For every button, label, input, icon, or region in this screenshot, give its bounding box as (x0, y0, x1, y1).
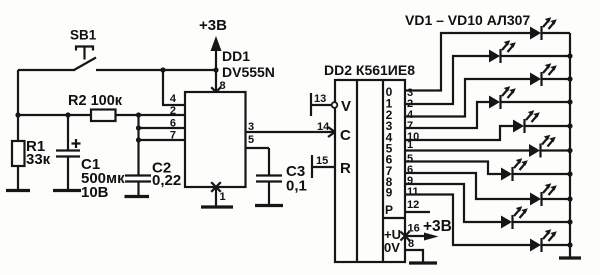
junction dot bus row VD2 (567, 53, 572, 58)
svg-text:16: 16 (408, 223, 420, 235)
LED VD6 (529, 135, 556, 158)
svg-text:4: 4 (170, 93, 177, 105)
resistor R1 body (17, 115, 19, 140)
svg-text:VD1 – VD10 АЛ307: VD1 – VD10 АЛ307 (405, 12, 530, 28)
switch SB1 actuator cap (76, 47, 93, 51)
wire: branch from top rail down to DD1 pin 4 (163, 70, 185, 105)
svg-text:0,1: 0,1 (286, 178, 307, 195)
ground bar under C2 (125, 195, 150, 198)
wire: top rail left segment to SB1 left contact (18, 69, 75, 71)
wire: DD1 pin 5 lead (246, 147, 270, 149)
wire: DD2 out 0 to VD1 riser (405, 33, 530, 91)
svg-text:11: 11 (407, 186, 419, 198)
wire: branch to DD1 pin 6 (139, 127, 186, 129)
svg-text:2: 2 (170, 105, 176, 117)
wire: DD1 pin 3 to DD2 C input (246, 131, 335, 133)
svg-text:6: 6 (170, 118, 176, 130)
pin 16 cross mark on DD2 right edge (401, 232, 410, 241)
wire: left vertical rail from top wire down to main bus (17, 70, 19, 115)
LED VD3 (530, 63, 557, 86)
wire: VD7 cathode to bus (513, 173, 570, 175)
junction dot at pin4 branch (160, 67, 165, 72)
svg-text:9: 9 (386, 186, 393, 200)
wire: VD5 cathode to bus (525, 125, 570, 127)
svg-text:33к: 33к (26, 151, 51, 168)
wire: DD2 pin 13 stub (311, 104, 332, 106)
wire: DD1 pin 1 to ground (215, 188, 217, 206)
wire: VD9 cathode to bus (513, 221, 570, 223)
power +3V arrow at DD2 pin 16 (405, 235, 424, 237)
wire: DD2 out 3 to VD4 riser (405, 102, 489, 128)
wire: top rail right segment from SB1 to DD1 supply column (96, 69, 216, 71)
pin 1 cross mark on DD1 bottom edge (211, 182, 221, 192)
LED VD9 (501, 206, 528, 229)
capacitor C1 plates (56, 149, 80, 151)
capacitor C1 top lead (67, 115, 69, 150)
DD2 supply cell divider (383, 217, 405, 219)
wire: DD2 pin 15 stub (312, 166, 335, 168)
svg-text:7: 7 (170, 130, 176, 142)
svg-text:DD1: DD1 (222, 48, 250, 64)
junction dot bus row VD4 (567, 99, 572, 104)
LED VD2 (489, 40, 516, 63)
wire: DD2 out 8 to VD9 riser (405, 184, 501, 222)
ground bar under C3 (255, 204, 283, 207)
wire: DD2 pin 8 to ground (405, 250, 423, 262)
wire: from top rail down to DD1 pin 8 (215, 70, 217, 92)
wire: VD1 cathode to bus (542, 32, 570, 34)
junction dot bus row VD6 (567, 148, 572, 153)
common cathode bus wire (569, 33, 571, 257)
wire: VD6 cathode to bus (541, 149, 570, 151)
resistor R2 body (91, 110, 116, 122)
svg-text:3: 3 (248, 121, 254, 133)
junction dot at left rail / R1 (15, 112, 20, 117)
svg-text:8: 8 (408, 238, 414, 250)
capacitor C3 plates (256, 174, 282, 176)
DD2 inner column line left (356, 80, 358, 262)
ground bar under DD1 pin 1 (201, 205, 233, 208)
svg-text:14: 14 (317, 121, 330, 133)
wire: DD2 out 1 to VD2 riser (405, 56, 489, 104)
terminator bar at DD2 pin 13 (310, 93, 312, 116)
wire: branch to DD1 pin 7 (139, 139, 186, 141)
wire: C1 bottom lead (67, 157, 69, 190)
junction dot bus row VD7 (567, 171, 572, 176)
svg-text:5: 5 (248, 134, 254, 146)
wire: DD2 out 5 straight to VD6 (405, 149, 529, 151)
wire: junction column down to C2 (137, 115, 139, 175)
wire: VD2 cathode to bus (501, 55, 570, 57)
svg-text:+3В: +3В (423, 218, 452, 235)
svg-text:V: V (341, 98, 351, 115)
svg-text:1: 1 (220, 191, 226, 203)
junction dot bus row VD9 (567, 219, 572, 224)
wire: R1 bottom lead (17, 166, 19, 190)
junction dot bus row VD3 (567, 76, 572, 81)
svg-text:13: 13 (314, 93, 326, 105)
power +3V arrow above DD1 (215, 50, 217, 70)
LED VD5 (513, 110, 540, 133)
LED VD4 (489, 86, 516, 109)
wire: DD2 out 4 to VD5 riser (405, 126, 513, 140)
terminator bar at DD2 pin 15 (311, 155, 313, 178)
capacitor C2 plates (125, 174, 151, 176)
junction dot bus row VD5 (567, 123, 572, 128)
svg-text:+3В: +3В (199, 17, 227, 34)
DD2 inner column line right (382, 80, 384, 262)
switch SB1 movable blade (74, 58, 96, 71)
junction dot at pin 6 branch (136, 125, 141, 130)
LED VD10 (530, 229, 557, 252)
wire: DD2 out 9 to VD10 riser (405, 195, 530, 246)
junction dot at C1 top (65, 112, 70, 117)
wire: DD2 out 7 to VD8 riser (405, 173, 530, 199)
LED VD7 (501, 158, 528, 181)
wire: DD2 out 6 to VD7 riser (405, 162, 501, 175)
wire: VD3 cathode to bus (542, 78, 570, 80)
junction dot bus row VD10 (567, 242, 572, 247)
wire: VD8 cathode to bus (542, 198, 570, 200)
svg-text:10В: 10В (81, 184, 109, 201)
junction dot at +3V column on top rail (213, 67, 218, 72)
capacitor C3 top lead (268, 148, 270, 175)
wire: C2 bottom lead (137, 182, 139, 196)
svg-text:0V: 0V (384, 240, 400, 255)
svg-text:R: R (340, 160, 351, 177)
wire: VD4 cathode to bus (501, 101, 570, 103)
junction dot bus row VD8 (567, 196, 572, 201)
main bus wire: left rail to R2 (18, 114, 91, 116)
wire: R2 right lead to DD1 pin 2 (116, 114, 186, 116)
svg-text:SB1: SB1 (70, 28, 97, 43)
junction dot at pin 7 branch (136, 137, 141, 142)
svg-text:P: P (385, 203, 393, 217)
wire: VD10 cathode to bus (542, 244, 570, 246)
op-amp/timer DD1 body (185, 92, 246, 187)
junction dot node pins 2/6/7 column top (136, 112, 141, 117)
switch SB1 actuator stem (83, 47, 85, 60)
plus sign of C1 polarity (72, 139, 81, 148)
wire: C3 bottom lead (268, 182, 270, 205)
ground bar under C1 (53, 189, 81, 192)
wire: DD2 out 2 to VD3 riser (405, 79, 530, 117)
wire: DD2 carry pin 12 stub (405, 211, 430, 213)
dynamic input arrow at DD2 pin C (328, 127, 335, 137)
ground bar under R1 (6, 189, 30, 192)
ground bar under DD2 pin 8 (409, 261, 437, 264)
LED VD1 (530, 17, 557, 40)
LED VD8 (530, 183, 557, 206)
svg-text:R2 100к: R2 100к (68, 93, 123, 109)
inversion bubble at DD2 pin V (332, 102, 338, 108)
svg-text:12: 12 (407, 199, 419, 211)
counter DD2 body (335, 80, 405, 262)
svg-text:8: 8 (220, 80, 226, 92)
ground bar at bottom of cathode bus (559, 256, 581, 259)
svg-text:DV555N: DV555N (222, 64, 275, 80)
svg-text:DD2 К561ИЕ8: DD2 К561ИЕ8 (324, 62, 415, 78)
svg-text:C: C (340, 127, 351, 144)
svg-text:0,22: 0,22 (152, 172, 181, 189)
svg-text:15: 15 (316, 155, 328, 167)
pin 8 cross mark on DD1 top edge (211, 87, 221, 97)
